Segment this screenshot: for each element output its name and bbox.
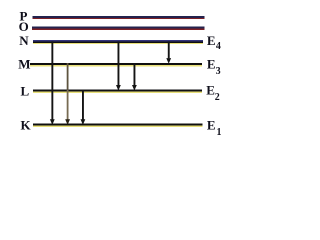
level line O: [32, 27, 205, 30]
label E4: [207, 33, 221, 52]
svg-text:E: E: [207, 56, 216, 71]
svg-text:3: 3: [216, 66, 221, 77]
level line M: [30, 63, 202, 66]
label E3: [207, 56, 221, 77]
svg-text:1: 1: [217, 127, 222, 138]
arrow N to K: [50, 41, 55, 125]
arrow N to L: [116, 41, 121, 90]
svg-text:4: 4: [216, 41, 221, 52]
arrow M to K: [65, 63, 70, 125]
svg-text:O: O: [19, 19, 29, 34]
arrow M to L: [132, 63, 137, 91]
svg-text:N: N: [19, 33, 29, 48]
level line K: [33, 124, 203, 128]
level line L: [33, 90, 202, 93]
arrow N to M: [166, 41, 171, 63]
arrow L to K: [81, 90, 86, 125]
svg-text:K: K: [21, 118, 32, 133]
label E2: [206, 82, 220, 103]
level line P: [33, 16, 205, 19]
svg-text:L: L: [21, 83, 30, 98]
label E1: [207, 117, 222, 138]
svg-text:E: E: [207, 33, 216, 48]
svg-text:M: M: [18, 57, 30, 72]
svg-text:2: 2: [215, 92, 220, 103]
svg-text:E: E: [206, 82, 215, 97]
level line N: [33, 40, 203, 44]
svg-text:E: E: [207, 117, 216, 132]
